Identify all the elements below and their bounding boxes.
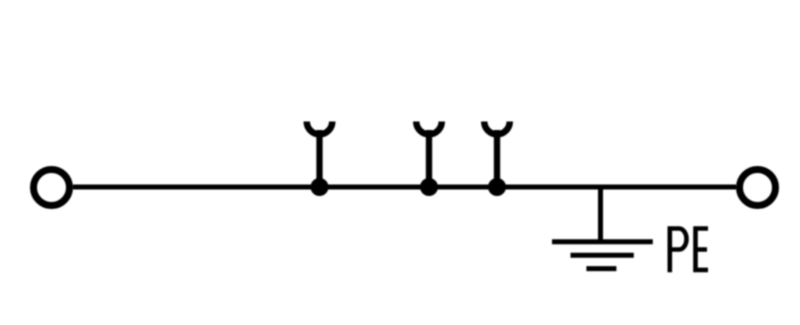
cross-connection tap 2 arc — [416, 122, 442, 135]
cross-connection tap 3 stub wire — [494, 130, 500, 187]
label PE letter E — [693, 226, 708, 272]
cross-connection tap 3 arc — [484, 122, 510, 135]
wire (main horizontal bus) — [73, 185, 736, 190]
terminal circle right — [740, 170, 776, 206]
junction dot 3 — [488, 178, 506, 196]
ground bar bottom — [586, 266, 616, 271]
label PE letter P — [670, 226, 687, 272]
ground bar middle — [571, 253, 634, 258]
ground bar top — [552, 239, 653, 244]
cross-connection tap 1 arc — [307, 122, 333, 135]
junction dot 2 — [420, 178, 438, 196]
terminal circle left — [34, 170, 70, 206]
cross-connection tap 2 stub wire — [426, 130, 432, 187]
cross-connection tap 1 stub wire — [316, 130, 322, 187]
ground stem wire — [598, 187, 603, 244]
junction dot 1 — [311, 178, 329, 196]
